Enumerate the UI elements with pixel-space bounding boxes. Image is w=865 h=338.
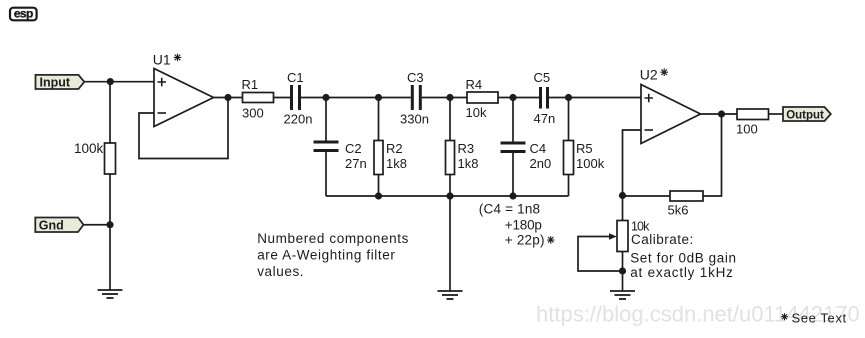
resistor R2 <box>374 141 407 175</box>
resistor R3 <box>446 141 479 175</box>
svg-text:220n: 220n <box>284 112 313 127</box>
svg-text:U2: U2 <box>640 67 658 83</box>
op-amp U2 <box>640 67 701 144</box>
wire U2 output <box>701 113 738 115</box>
svg-text:R4: R4 <box>466 77 483 92</box>
svg-text:R2: R2 <box>386 141 403 156</box>
svg-text:100: 100 <box>736 122 758 137</box>
node R2 top junction <box>375 94 382 101</box>
wire U1 feedback <box>139 98 228 159</box>
svg-text:100k: 100k <box>74 141 104 156</box>
svg-text:Set for 0dB gain: Set for 0dB gain <box>630 251 736 266</box>
note pot calibrate <box>630 220 736 281</box>
op-amp U1 <box>153 52 214 127</box>
note see text <box>781 311 847 326</box>
svg-text:values.: values. <box>257 264 304 279</box>
svg-text:47n: 47n <box>534 111 556 126</box>
resistor R1 <box>242 77 274 121</box>
wire R3 to ground <box>449 175 451 292</box>
svg-text:10k: 10k <box>466 105 487 120</box>
node U2 output junction <box>718 110 725 117</box>
wire 5k6 right up to output <box>703 114 722 196</box>
Gnd terminal tag <box>35 218 83 233</box>
svg-text:C1: C1 <box>287 70 304 85</box>
wire U2 inverting input <box>623 130 642 221</box>
wire node down to R2 <box>378 98 380 141</box>
note numbered components <box>257 231 409 279</box>
wire C3 to R4 <box>422 97 467 99</box>
svg-text:1k8: 1k8 <box>458 156 479 171</box>
wire node down to C4 <box>512 98 514 142</box>
svg-text:(C4 = 1n8: (C4 = 1n8 <box>479 202 540 217</box>
wire 5k6 left <box>623 195 671 197</box>
wire C1 to C3 <box>301 97 411 99</box>
wire pot wiper loop <box>578 237 623 272</box>
node A junction input <box>107 78 114 85</box>
svg-text:+180p: +180p <box>505 218 542 233</box>
svg-text:C2: C2 <box>345 141 362 156</box>
bottom rail <box>326 195 569 197</box>
ground R3 <box>438 291 463 299</box>
svg-text:esp: esp <box>14 7 33 21</box>
node pot bottom junction <box>619 267 626 274</box>
wire node down to R5 <box>568 98 570 141</box>
svg-text:+ 22p): + 22p) <box>505 233 545 248</box>
svg-text:Output: Output <box>786 110 824 122</box>
svg-text:See Text: See Text <box>792 311 847 326</box>
wire gnd tag to node B <box>84 224 111 226</box>
Output terminal tag <box>783 107 831 122</box>
ESP logo <box>10 7 37 21</box>
capacitor C1 <box>284 70 313 127</box>
node R2 bottom junction <box>375 192 382 199</box>
wire C5 to U2 <box>549 97 641 99</box>
capacitor C5 <box>534 70 556 126</box>
node R5 top junction <box>565 94 572 101</box>
wire C4 to bottom rail <box>512 153 514 196</box>
resistor R4 <box>466 77 499 120</box>
wire node C1out down to C2 <box>325 98 327 141</box>
wire pot bottom <box>622 252 624 292</box>
svg-text:at exactly 1kHz: at exactly 1kHz <box>630 265 734 280</box>
capacitor C4 <box>501 141 552 171</box>
wire R4 to C5 <box>498 97 539 99</box>
wire R1 to C1 <box>274 97 291 99</box>
node U2 feedback junction <box>619 192 626 199</box>
wire R2 to bottom rail <box>378 175 380 197</box>
wire node A down to resistor 100k <box>109 82 111 143</box>
wire input to node A <box>84 81 154 83</box>
note C4 composition <box>479 202 555 248</box>
Input terminal tag <box>36 75 85 90</box>
svg-text:Input: Input <box>40 76 71 90</box>
ground pot <box>610 291 635 299</box>
svg-text:27n: 27n <box>345 156 367 171</box>
node R3 top junction <box>446 94 453 101</box>
potentiometer 10k <box>609 221 628 252</box>
node R3 bottom junction <box>446 192 453 199</box>
svg-text:Gnd: Gnd <box>39 219 64 233</box>
wire R5 to bottom rail <box>568 175 570 197</box>
ground input <box>98 290 123 298</box>
capacitor C2 <box>314 141 367 172</box>
wire U1 output rail <box>214 97 243 99</box>
node C4 top junction <box>509 94 516 101</box>
svg-text:1k8: 1k8 <box>386 156 407 171</box>
capacitor C3 <box>400 70 429 127</box>
node B junction gnd <box>106 221 113 228</box>
wire node down to R3 <box>449 98 451 141</box>
svg-text:300: 300 <box>242 106 264 121</box>
svg-text:C3: C3 <box>407 70 424 85</box>
svg-text:R1: R1 <box>242 77 259 92</box>
svg-text:5k6: 5k6 <box>668 203 689 218</box>
resistor 100 output <box>736 109 769 137</box>
svg-text:2n0: 2n0 <box>530 156 552 171</box>
svg-text:C5: C5 <box>534 70 551 85</box>
resistor 100k input <box>74 141 115 174</box>
wire resistor 100k to ground <box>109 174 111 290</box>
svg-text:U1: U1 <box>153 52 171 68</box>
svg-text:100k: 100k <box>576 156 605 171</box>
wire C2 to bottom rail <box>325 152 327 196</box>
svg-text:C4: C4 <box>530 141 547 156</box>
svg-text:Numbered components: Numbered components <box>257 231 409 246</box>
node C4 bottom junction <box>509 192 516 199</box>
resistor 5k6 <box>668 191 704 218</box>
wire R100 to output tag <box>769 113 784 115</box>
svg-text:Calibrate:: Calibrate: <box>631 232 694 247</box>
svg-text:R3: R3 <box>458 141 475 156</box>
svg-text:are A-Weighting filter: are A-Weighting filter <box>257 248 395 263</box>
node U1 output junction <box>224 94 231 101</box>
resistor R5 <box>564 141 605 175</box>
svg-text:330n: 330n <box>400 112 429 127</box>
node C1-C2 junction <box>322 94 329 101</box>
svg-text:R5: R5 <box>576 141 593 156</box>
